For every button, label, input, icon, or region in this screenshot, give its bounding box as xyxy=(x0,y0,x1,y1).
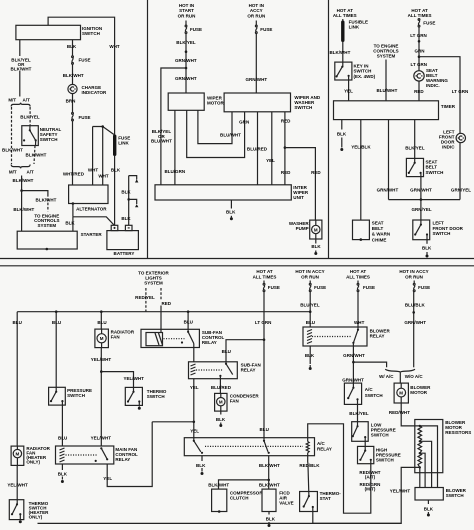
wire BLU drop 3 radiator fan xyxy=(97,312,106,329)
node GRN/WHT junction xyxy=(352,361,355,364)
main fan control relay xyxy=(56,446,139,464)
blower motor resistors xyxy=(415,420,472,473)
svg-text:ONLY): ONLY) xyxy=(26,459,40,464)
svg-text:BLK/WHT: BLK/WHT xyxy=(2,147,23,152)
svg-text:GRN/YEL: GRN/YEL xyxy=(451,187,471,192)
svg-text:TIMER: TIMER xyxy=(441,104,456,109)
svg-text:UNIT: UNIT xyxy=(293,195,304,200)
node dot on feed xyxy=(185,50,188,53)
neutral safety switch xyxy=(22,126,62,146)
fuse F9 xyxy=(413,281,430,292)
wire BLU pressure switch to main fan relay xyxy=(58,401,67,446)
svg-text:SWITCH: SWITCH xyxy=(147,394,165,399)
ground terminal unit xyxy=(230,216,233,221)
svg-text:FUSE: FUSE xyxy=(418,285,430,290)
svg-text:BLK: BLK xyxy=(67,44,77,49)
svg-text:STAT: STAT xyxy=(320,496,331,501)
svg-text:A/T: A/T xyxy=(26,170,34,175)
node HOT IN ACCY OR RUN right xyxy=(399,269,428,279)
svg-text:LINK: LINK xyxy=(118,141,129,146)
svg-text:ONLY): ONLY) xyxy=(29,514,43,519)
brace M/T A/T upper xyxy=(8,98,30,107)
resistor element xyxy=(418,425,422,469)
svg-text:BLK: BLK xyxy=(337,131,347,136)
svg-text:LT GRN: LT GRN xyxy=(411,62,428,67)
washer pump xyxy=(289,220,322,239)
svg-text:BLK/YEL: BLK/YEL xyxy=(349,411,369,416)
node battery minus junction xyxy=(127,198,136,204)
fuse F3 xyxy=(185,25,202,33)
thermo switch xyxy=(125,387,167,405)
svg-text:STARTER: STARTER xyxy=(81,232,103,237)
brace M/T A/T lower xyxy=(9,165,34,175)
svg-text:SEAT: SEAT xyxy=(372,220,384,225)
svg-text:GRN/WHT: GRN/WHT xyxy=(175,76,197,81)
node bus dot 4 xyxy=(187,310,190,313)
svg-text:BLU/RED: BLU/RED xyxy=(247,146,268,151)
wire WHT to blower relay xyxy=(354,292,365,330)
svg-text:BLK: BLK xyxy=(305,353,315,358)
wire W/AC bracket left xyxy=(353,362,400,379)
svg-text:INDIC.: INDIC. xyxy=(426,83,440,88)
svg-text:BLK: BLK xyxy=(121,216,131,221)
left front door indicator xyxy=(439,129,466,149)
svg-text:BLU: BLU xyxy=(58,436,67,441)
node HOT IN ACCY OR RUN mid xyxy=(295,269,324,279)
svg-text:A/C: A/C xyxy=(317,441,326,446)
node WHT label xyxy=(109,44,120,49)
high pressure switch xyxy=(358,446,401,463)
ground terminal door switch xyxy=(426,252,429,258)
svg-text:BLU/RED: BLU/RED xyxy=(211,385,232,390)
svg-text:GRN/WHT: GRN/WHT xyxy=(343,353,365,358)
wire BLK/YEL to seat belt switch xyxy=(405,120,425,163)
wire ignition BLK output xyxy=(67,40,77,56)
svg-text:GRN/WHT: GRN/WHT xyxy=(410,187,432,192)
node dot LT GRN upper xyxy=(418,40,421,43)
svg-text:HOT IN: HOT IN xyxy=(179,3,194,8)
wire branch to door indicator xyxy=(419,57,468,134)
wire motor lead 2 to switch GRN xyxy=(187,110,250,157)
wire BLU/RED to condenser fan xyxy=(211,376,232,394)
svg-text:BLK: BLK xyxy=(111,168,121,173)
inter wiper unit xyxy=(155,185,309,200)
wire branch to compressor clutch xyxy=(208,480,268,489)
seat belt warning indicator xyxy=(414,68,449,88)
wire blower motor stem xyxy=(399,372,401,383)
wire alternator output to fuse link xyxy=(93,125,114,134)
ground terminal timer xyxy=(340,148,343,151)
wire W/AC bracket right xyxy=(400,369,423,379)
wire ignition feed top xyxy=(48,17,115,44)
svg-text:BLK: BLK xyxy=(65,221,75,226)
svg-text:LINK: LINK xyxy=(349,25,360,30)
svg-text:SYSTEM: SYSTEM xyxy=(377,54,396,59)
fusible link FL2 xyxy=(341,19,368,42)
svg-text:BLK: BLK xyxy=(58,471,68,476)
svg-text:YEL: YEL xyxy=(266,158,275,163)
wiper and washer switch xyxy=(224,93,321,112)
svg-text:OR RUN: OR RUN xyxy=(301,274,319,279)
wire BLU/WHT to timer xyxy=(376,60,397,101)
svg-text:SWITCH: SWITCH xyxy=(376,457,394,462)
svg-text:FUSE: FUSE xyxy=(363,285,375,290)
wire chime bus horizontal xyxy=(389,199,461,201)
wire WHT main to fuse link xyxy=(114,44,116,135)
wire main bus RED/YEL xyxy=(17,311,310,313)
svg-text:(EX. 4WD): (EX. 4WD) xyxy=(354,74,376,79)
svg-text:SWITCH: SWITCH xyxy=(426,170,444,175)
wire RED/WHT RED/GRN AC request xyxy=(308,424,381,513)
svg-text:FRONT DOOR: FRONT DOOR xyxy=(433,226,464,231)
svg-text:BLU: BLU xyxy=(222,349,231,354)
seat belt switch xyxy=(406,158,443,176)
node HOT AT ALL TIMES right xyxy=(408,8,432,18)
svg-text:OR RUN: OR RUN xyxy=(178,14,196,19)
wire RED/YEL dashed to bus xyxy=(135,288,155,312)
wire branch to engine controls xyxy=(22,191,57,212)
wire timer BLK output xyxy=(337,120,347,148)
svg-text:YEL/WHT: YEL/WHT xyxy=(124,376,145,381)
sub-fan relay xyxy=(189,362,261,379)
node bus end junction xyxy=(309,310,312,313)
wire blower switch ground BLK xyxy=(424,500,434,511)
svg-text:ALTERNATOR: ALTERNATOR xyxy=(76,206,107,211)
svg-text:FUSE: FUSE xyxy=(260,27,272,32)
fuse F4 xyxy=(255,25,272,33)
svg-text:BLK/WHT: BLK/WHT xyxy=(259,463,280,468)
wire fuse to charge indicator xyxy=(63,64,84,84)
wire battery ground BLK xyxy=(121,176,136,226)
ground terminal washer pump xyxy=(314,251,317,256)
svg-text:BLK: BLK xyxy=(311,244,321,249)
pressure switch xyxy=(49,387,92,405)
svg-text:M: M xyxy=(100,336,104,341)
svg-text:SYSTEM: SYSTEM xyxy=(144,281,163,286)
svg-text:SWITCH: SWITCH xyxy=(371,433,389,438)
ground terminal thermo heater xyxy=(19,514,22,523)
wire to high pressure switch xyxy=(364,437,366,451)
node TO ENGINE CONTROLS SYSTEM p3 xyxy=(373,44,398,59)
wire branch to inter wiper unit left xyxy=(151,68,186,185)
svg-text:W/ A/C: W/ A/C xyxy=(379,374,394,379)
wire RED to timer xyxy=(414,81,424,101)
compressor clutch xyxy=(212,489,264,513)
wire merged BLK/WHT to junction xyxy=(13,176,34,191)
svg-text:RELAY: RELAY xyxy=(115,457,130,462)
svg-text:FUSE: FUSE xyxy=(79,115,91,120)
svg-text:FUSE: FUSE xyxy=(423,21,435,26)
svg-text:CHIME: CHIME xyxy=(372,237,387,242)
svg-text:CLUTCH: CLUTCH xyxy=(230,495,249,500)
svg-text:WHT: WHT xyxy=(98,173,109,178)
svg-text:BLK/WHT: BLK/WHT xyxy=(329,50,350,55)
svg-text:BLK: BLK xyxy=(121,190,131,195)
svg-text:YEL/WHT: YEL/WHT xyxy=(390,488,411,493)
fuse F2 xyxy=(72,113,91,121)
svg-text:RED: RED xyxy=(281,119,291,124)
svg-text:SWITCH: SWITCH xyxy=(433,231,451,236)
svg-text:BLU: BLU xyxy=(184,319,193,324)
ground terminal lower xyxy=(135,204,138,207)
ground terminal AC relay xyxy=(201,472,204,475)
svg-text:RED/WHT: RED/WHT xyxy=(389,410,410,415)
svg-text:BLK/YEL: BLK/YEL xyxy=(405,145,425,150)
wire BLU drop 4 sub-fan control relay xyxy=(184,312,193,332)
ground terminal main fan relay xyxy=(61,480,64,483)
wire thermostat to resistors YEL/WHT xyxy=(313,467,420,523)
svg-text:FUSE: FUSE xyxy=(79,57,91,62)
wire to FICD xyxy=(259,480,280,489)
wire condenser fan ground BLK xyxy=(216,411,226,422)
svg-text:BELT: BELT xyxy=(426,165,438,170)
svg-text:FAN: FAN xyxy=(111,335,120,340)
ignition switch S1 xyxy=(16,25,102,39)
wire LT GRN feed xyxy=(255,292,272,340)
wire GRN/YEL indicator to bus xyxy=(451,143,471,200)
radiator fan heater only xyxy=(11,446,51,466)
svg-text:BRN: BRN xyxy=(66,99,76,104)
wire switch RED to unit xyxy=(281,112,291,185)
fuse F6 xyxy=(263,281,280,292)
svg-text:LT GRN: LT GRN xyxy=(255,320,272,325)
wire switch BLU/RED to unit xyxy=(247,112,268,185)
svg-text:RED: RED xyxy=(281,170,291,175)
svg-text:YEL: YEL xyxy=(344,89,353,94)
svg-text:WHT: WHT xyxy=(354,320,365,325)
svg-text:ALL TIMES: ALL TIMES xyxy=(333,13,357,18)
wire unit ground BLK xyxy=(226,200,236,215)
svg-text:SWITCH: SWITCH xyxy=(354,69,372,74)
wire wiper feed upper xyxy=(185,21,187,26)
svg-text:RELAY: RELAY xyxy=(202,340,217,345)
battery xyxy=(107,225,138,256)
wire AC relay BLK output xyxy=(196,455,206,471)
wire below NSS dashed xyxy=(2,140,47,164)
svg-text:BLK/WHT: BLK/WHT xyxy=(26,153,47,158)
svg-text:MOTOR: MOTOR xyxy=(410,390,427,395)
node junction starter feed xyxy=(20,189,23,192)
svg-text:BLK: BLK xyxy=(424,506,434,511)
svg-text:W/O A/C: W/O A/C xyxy=(405,374,424,379)
svg-text:FUSE: FUSE xyxy=(190,27,202,32)
node bus dot 3 xyxy=(100,310,103,313)
svg-text:LT GRN: LT GRN xyxy=(452,89,469,94)
wire branch to thermo switch xyxy=(101,372,144,392)
svg-text:BLU/BLK: BLU/BLK xyxy=(405,303,426,308)
svg-text:BLK/YEL: BLK/YEL xyxy=(20,114,40,119)
section divider horizontal xyxy=(0,259,474,266)
panel divider vertical left xyxy=(147,0,149,259)
svg-text:RED/YEL: RED/YEL xyxy=(135,295,155,300)
wire GRN/WHT to washer switch xyxy=(245,34,267,94)
wire switch YEL to unit xyxy=(266,112,275,185)
svg-text:YEL/BLK: YEL/BLK xyxy=(351,144,371,149)
wire BLK/YEL to low pressure switch xyxy=(349,399,369,426)
svg-text:FAN: FAN xyxy=(230,398,239,403)
svg-text:KEY IN: KEY IN xyxy=(354,63,369,68)
node HOT IN START OR RUN xyxy=(178,3,196,19)
svg-text:FUSE: FUSE xyxy=(314,285,326,290)
svg-text:ACCY: ACCY xyxy=(250,8,263,13)
svg-text:A/C: A/C xyxy=(365,387,374,392)
svg-text:M: M xyxy=(314,227,318,232)
svg-text:START: START xyxy=(179,8,194,13)
ground terminal condenser fan xyxy=(219,423,222,428)
svg-text:BLK: BLK xyxy=(196,463,206,468)
svg-text:GRN/YEL: GRN/YEL xyxy=(412,207,432,212)
svg-text:RED: RED xyxy=(162,301,172,306)
wire main fan relay BLK output xyxy=(58,464,68,480)
svg-text:YEL/WHT: YEL/WHT xyxy=(7,483,28,488)
wire alternator BLK to battery and starter xyxy=(65,204,113,232)
A/C switch xyxy=(344,383,382,404)
svg-text:YEL: YEL xyxy=(190,385,199,390)
svg-text:WHT/RED: WHT/RED xyxy=(63,171,85,176)
svg-text:RED: RED xyxy=(311,170,321,175)
svg-text:(A/T): (A/T) xyxy=(365,475,376,480)
svg-text:SWITCH: SWITCH xyxy=(294,105,312,110)
wire BLU/BLK GRN/WHT feed xyxy=(404,292,426,368)
svg-text:ALL TIMES: ALL TIMES xyxy=(253,274,277,279)
svg-text:M/T: M/T xyxy=(9,170,17,175)
panel divider vertical right xyxy=(328,0,330,259)
svg-text:INDIC: INDIC xyxy=(442,144,455,149)
left front door switch xyxy=(413,220,464,240)
svg-text:BLU: BLU xyxy=(306,320,315,325)
node HOT AT ALL TIMES left xyxy=(333,8,357,18)
svg-text:FUSE: FUSE xyxy=(268,285,280,290)
node bus dot 2 xyxy=(55,310,58,313)
sub-fan control relay xyxy=(141,329,225,347)
svg-text:BLU/WHT: BLU/WHT xyxy=(376,88,397,93)
svg-text:BLK/WHT: BLK/WHT xyxy=(13,178,34,183)
svg-text:M: M xyxy=(219,400,223,405)
wire YEL to timer xyxy=(344,76,353,101)
node TO EXTERIOR LIGHTS SYSTEM xyxy=(138,270,169,285)
wire FICD ground BLK xyxy=(266,512,276,522)
wire branch to sub-fan relay xyxy=(222,340,264,364)
wire RED/WHT blower motor to resistors xyxy=(389,403,420,426)
node HOT AT ALL TIMES mid2 xyxy=(346,269,370,279)
node LT GRN junction xyxy=(263,338,266,341)
svg-text:OR RUN: OR RUN xyxy=(405,274,423,279)
node HOT AT ALL TIMES mid xyxy=(253,269,277,279)
svg-text:GRN: GRN xyxy=(414,48,424,53)
fuse F8 xyxy=(357,281,375,292)
wire to starter xyxy=(13,191,34,232)
radiator fan xyxy=(95,329,135,348)
svg-text:BATTERY: BATTERY xyxy=(114,251,135,256)
svg-text:BLK/WHT: BLK/WHT xyxy=(259,483,280,488)
svg-text:GRN/WHT: GRN/WHT xyxy=(245,77,267,82)
svg-text:YEL: YEL xyxy=(103,476,112,481)
svg-text:(M/T): (M/T) xyxy=(365,487,376,492)
wire YEL/WHT to thermo switch heater xyxy=(7,465,28,504)
svg-text:MOTOR: MOTOR xyxy=(207,101,224,106)
svg-text:LEFT: LEFT xyxy=(433,221,445,226)
svg-text:LT GRN: LT GRN xyxy=(410,33,427,38)
svg-text:A/T: A/T xyxy=(23,98,31,103)
svg-text:RELAY: RELAY xyxy=(317,447,332,452)
wire washer feed upper xyxy=(255,21,257,26)
wire BLK/YEL GRN/WHT to wiper motor xyxy=(175,34,197,94)
wire YEL main fan relay output xyxy=(103,422,152,487)
fuse F7 xyxy=(309,281,326,292)
bottom border line xyxy=(38,522,402,524)
node BLK/YEL OR BLK/WHT xyxy=(11,58,32,72)
svg-text:YEL: YEL xyxy=(190,429,199,434)
wire resistor taps to blower switch xyxy=(420,426,438,488)
wire alternator WHT 2 xyxy=(98,127,109,185)
wire motor lead 3 to switch BLU/WHT xyxy=(198,110,241,143)
key in switch xyxy=(335,62,376,80)
wire A/T dashed to NSS xyxy=(20,107,40,130)
thermo switch heater only xyxy=(9,500,49,520)
svg-text:GRN/WHT: GRN/WHT xyxy=(342,377,364,382)
wire GRN/YEL to door switch xyxy=(412,200,432,225)
ground terminal upper xyxy=(135,179,138,182)
svg-text:BLK/WHT: BLK/WHT xyxy=(208,483,229,488)
wire GRN/WHT seat belt switch to bus xyxy=(410,173,432,200)
ground terminal thermo switch xyxy=(138,402,141,410)
wire LT GRN chain xyxy=(410,27,427,71)
condenser fan xyxy=(215,393,260,411)
node dot GRN branch xyxy=(418,55,421,58)
wire alternator WHT 1 xyxy=(88,127,99,186)
svg-text:BLU/GRN: BLU/GRN xyxy=(164,169,185,174)
wire blower relay BLK output xyxy=(305,346,315,364)
svg-text:BLK/WHT: BLK/WHT xyxy=(13,207,34,212)
wire door switch ground BLK xyxy=(422,235,432,251)
svg-text:SYSTEM: SYSTEM xyxy=(37,223,56,228)
svg-text:BLU: BLU xyxy=(97,320,106,325)
svg-text:BLU/WHT: BLU/WHT xyxy=(220,133,241,138)
alternator xyxy=(69,185,108,211)
svg-text:WHT: WHT xyxy=(88,168,99,173)
seat belt and warn chime xyxy=(353,220,391,242)
svg-text:GRN/WHT: GRN/WHT xyxy=(175,58,197,63)
svg-text:RESISTORS: RESISTORS xyxy=(445,430,471,435)
svg-text:BLK: BLK xyxy=(422,246,432,251)
thermostat xyxy=(300,491,342,512)
wire BLU/YEL to blower relay xyxy=(300,292,320,327)
low pressure switch xyxy=(352,422,396,442)
svg-text:ALL TIMES: ALL TIMES xyxy=(408,13,432,18)
node bus junction xyxy=(420,198,423,201)
A/C relay xyxy=(184,438,332,456)
wire RED/BLK to thermostat xyxy=(299,453,320,496)
svg-text:M/T: M/T xyxy=(8,98,16,103)
ground terminal blower switch xyxy=(427,512,430,517)
wire control relay to sub-fan relay coil xyxy=(193,344,195,363)
svg-text:GRN/WHT: GRN/WHT xyxy=(377,187,399,192)
svg-text:ALL TIMES: ALL TIMES xyxy=(346,274,370,279)
svg-text:& WARN: & WARN xyxy=(372,232,390,237)
svg-text:GRN/WHT: GRN/WHT xyxy=(404,320,426,325)
node BLK/WHT junction xyxy=(267,479,270,482)
wire YEL sub-fan relay coil output xyxy=(190,379,199,441)
wire BLU to AC relay xyxy=(260,340,269,441)
timer xyxy=(334,101,456,120)
svg-text:SWITCH: SWITCH xyxy=(40,137,58,142)
wire fuse link to battery plus xyxy=(111,156,121,225)
wire M/T dashed bypass xyxy=(11,107,13,164)
node washer pump branch xyxy=(284,146,322,220)
node TO ENGINE CONTROLS SYSTEM xyxy=(34,213,59,228)
fusible link FL1 xyxy=(113,135,130,157)
fuse F5 xyxy=(418,19,435,27)
